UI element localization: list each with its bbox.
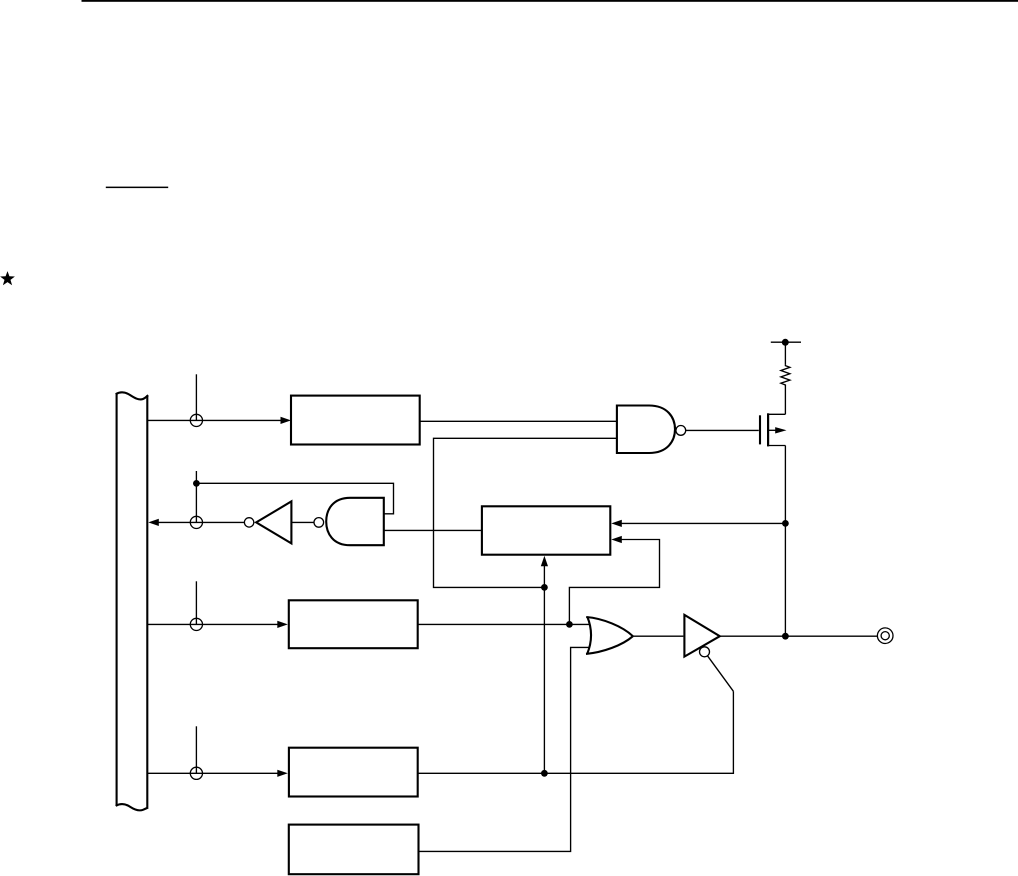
- OR gate U4: [586, 617, 633, 654]
- arrow rect2 bottom input: [541, 556, 548, 567]
- node junction row2 stub: [193, 480, 200, 487]
- wire feedback to NAND U1 input 2: [434, 438, 617, 587]
- wire rect3 to OR gate U4: [418, 623, 590, 625]
- wire row3 stub: [195, 581, 197, 624]
- node junction on row4 wire: [541, 770, 548, 777]
- transistor Q1 gate plate: [759, 415, 761, 444]
- bubble U5 enable: [700, 647, 710, 657]
- arrow rect2 input 2: [611, 536, 622, 543]
- wire U2 upper input from node row2: [196, 483, 393, 514]
- wire node to rect2 input 1: [621, 522, 785, 524]
- wire row3 bus to rect3: [147, 623, 278, 625]
- internal bus bar: [116, 392, 149, 810]
- bubble U1 output: [676, 426, 686, 436]
- tri-state buffer U5: [684, 615, 719, 657]
- resistor R1 pull-up: [781, 365, 790, 386]
- wire Q1 drain to resistor: [784, 385, 786, 414]
- block rect3: [289, 600, 418, 648]
- node row2 bus circle: [190, 516, 202, 528]
- wire rect1 to NAND U1 input 1: [420, 420, 616, 422]
- block rect2 (output latch): [482, 506, 610, 554]
- wire U5 output to pin: [720, 635, 877, 637]
- node junction on source line: [782, 520, 789, 527]
- transistor Q1 source stub: [767, 445, 785, 447]
- bubble U3 output: [244, 518, 253, 527]
- wire U4 to buffer U5: [633, 635, 684, 637]
- wire U1 to Q1 gate: [686, 429, 759, 431]
- node junction feedback: [541, 584, 548, 591]
- node row3 bus circle: [190, 618, 202, 630]
- arrow into block 1: [281, 417, 292, 424]
- inverter U3 (left facing): [256, 501, 291, 543]
- node row4 bus circle: [190, 767, 202, 779]
- arrow into rect4: [277, 770, 288, 777]
- star revision mark: [0, 271, 15, 285]
- transistor Q1 drain stub: [767, 413, 785, 415]
- wire rect4 to enable diagonal: [418, 691, 734, 773]
- transistor Q1 body arrow: [769, 429, 776, 431]
- wire row4 bus to rect4: [147, 772, 278, 774]
- wire Q1 source down to output node: [784, 446, 786, 637]
- wire rect5 to OR gate U4 lower input: [419, 647, 590, 851]
- arrow into bus row2: [148, 519, 159, 526]
- block rect1 (write latch): [291, 396, 420, 445]
- node VDD junction: [782, 339, 789, 346]
- bubble U2 output: [314, 518, 324, 528]
- wire rect2 bottom input vertical: [543, 565, 545, 773]
- block rect5: [289, 825, 419, 875]
- power rail VDD: [771, 341, 801, 343]
- wire enable diagonal: [708, 656, 734, 692]
- NAND gate U2 (left facing): [326, 498, 384, 545]
- pin terminal P: [877, 628, 893, 644]
- node junction on row3 wire: [566, 621, 573, 628]
- node output junction: [782, 633, 789, 640]
- transistor Q1 channel plate: [767, 413, 769, 446]
- wire row4 stub: [195, 726, 197, 773]
- wire U3 to bus: [158, 521, 244, 523]
- wire VDD to resistor: [784, 342, 786, 364]
- wire row1 bus to latch: [147, 419, 281, 421]
- NAND gate U1: [617, 406, 675, 454]
- block rect4: [289, 748, 418, 797]
- node row1 bus circle: [190, 414, 202, 426]
- wire row2 stub: [195, 471, 197, 522]
- wire row1 stub: [195, 374, 197, 420]
- wire rect2 input 2 path: [569, 540, 659, 625]
- page header rule: [82, 0, 1018, 2]
- arrow rect2 input 1: [611, 520, 622, 527]
- wire U2 to inverter U3: [291, 521, 314, 523]
- wire rect2 output to NAND U2: [384, 529, 482, 531]
- arrow into rect3: [277, 621, 288, 628]
- underline (blank text): [106, 187, 168, 189]
